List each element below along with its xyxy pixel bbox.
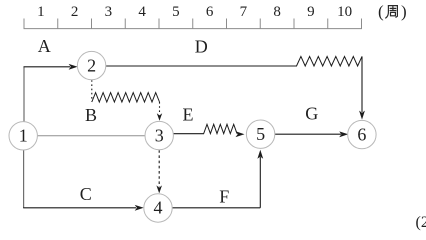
svg-text:9: 9 <box>307 4 315 20</box>
wire: F vertical rise to node 5 <box>259 157 261 208</box>
label G <box>305 104 318 124</box>
activity G arrow line 5->6 <box>275 133 341 135</box>
svg-text:E: E <box>183 105 194 125</box>
node 2 <box>77 51 105 79</box>
svg-text:7: 7 <box>240 4 248 20</box>
activity E free-float zigzag <box>204 124 237 133</box>
wire: D vertical drop to node 6 <box>361 56 363 112</box>
svg-text:10: 10 <box>337 4 352 20</box>
arrowhead of F at node 5 bottom <box>257 150 263 159</box>
svg-text:6: 6 <box>357 124 366 144</box>
arrowhead of dummy at node 4 top <box>156 185 162 193</box>
label A <box>38 36 51 56</box>
svg-text:F: F <box>219 186 229 206</box>
activity B zigzag <box>92 93 160 102</box>
svg-text:(: ( <box>378 2 384 21</box>
wire: dotted drop from B zigzag to node 3 <box>159 102 161 114</box>
node 1 <box>9 122 37 150</box>
svg-text:1: 1 <box>19 126 28 146</box>
wire: C vertical drop from node 1 <box>23 150 25 208</box>
label F <box>219 186 229 206</box>
arrowhead of G at node 6 <box>339 131 348 137</box>
label B <box>85 105 97 125</box>
time scale tick marks <box>24 19 362 29</box>
unit label (周) <box>378 2 407 21</box>
svg-text:8: 8 <box>273 4 281 20</box>
svg-text:C: C <box>80 184 92 204</box>
svg-text:3: 3 <box>155 125 164 145</box>
svg-text:(2: (2 <box>416 214 426 231</box>
activity C arrow line 1->4 <box>23 207 136 209</box>
activity E solid line from node 3 <box>174 133 205 135</box>
svg-text:4: 4 <box>154 198 163 218</box>
activity D solid line from node 2 <box>106 65 297 67</box>
svg-text:): ) <box>401 2 407 21</box>
node 5 <box>246 120 274 148</box>
label C <box>80 184 92 204</box>
arrowhead of C at node 4 <box>135 205 144 211</box>
wire: A vertical riser from node 1 up to corner <box>23 67 25 122</box>
arrowhead of B at node 3 top <box>157 113 162 121</box>
arrowhead of E at node 5 <box>236 131 245 137</box>
svg-text:G: G <box>305 104 318 124</box>
node 3 <box>145 121 173 149</box>
wire: dotted drop from node 2 to B zigzag <box>91 80 93 101</box>
svg-text:6: 6 <box>206 4 214 20</box>
activity A arrow line 1->2 <box>24 66 71 68</box>
activity D free-float zigzag <box>297 56 363 66</box>
svg-text:B: B <box>85 105 97 125</box>
svg-text:5: 5 <box>172 4 180 20</box>
arrowhead of D at node 6 top <box>359 111 365 120</box>
activity F horizontal line from node 4 <box>172 207 260 209</box>
svg-text:2: 2 <box>71 4 79 20</box>
node 4 <box>144 194 172 222</box>
svg-text:5: 5 <box>256 124 265 144</box>
svg-text:4: 4 <box>138 4 146 20</box>
wire: plain connector node 1 to node 3 <box>38 135 146 137</box>
svg-text:3: 3 <box>105 4 113 20</box>
time scale ruler baseline <box>24 28 363 30</box>
svg-text:1: 1 <box>37 4 45 20</box>
cropped caption (2 at bottom right <box>416 214 426 231</box>
node 6 <box>348 120 376 148</box>
svg-text:D: D <box>195 36 208 56</box>
svg-text:A: A <box>38 36 51 56</box>
svg-text:2: 2 <box>87 55 96 75</box>
label E <box>183 105 194 125</box>
arrowhead of A at node 2 <box>69 64 78 70</box>
dummy activity dashed arrow 3->4 <box>158 150 160 187</box>
week numbers 1-10 <box>37 4 352 20</box>
label D <box>195 36 208 56</box>
